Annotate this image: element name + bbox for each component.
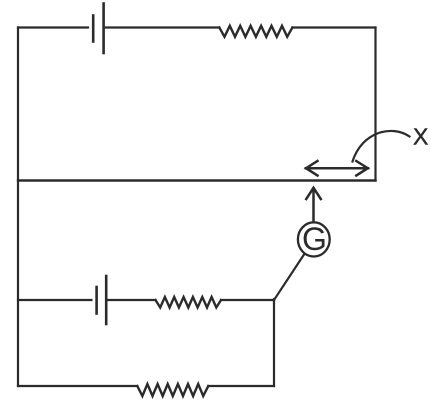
label X xyxy=(413,124,428,150)
resistor R1 xyxy=(219,26,292,37)
wire resistor R1 to top-right corner xyxy=(292,26,375,28)
wire resistor R2 to junction xyxy=(221,299,274,301)
node junction xyxy=(273,299,275,301)
wire potentiometer middle xyxy=(18,179,376,181)
wire middle-loop left segment xyxy=(18,299,91,301)
galvanometer G circle xyxy=(298,222,330,256)
battery B1 long plate xyxy=(102,4,105,54)
svg-text:X: X xyxy=(413,124,428,150)
resistor R2 xyxy=(156,297,222,308)
wire junction down vertical xyxy=(273,300,275,386)
svg-text:G: G xyxy=(302,221,327,257)
jockey double arrow xyxy=(306,161,368,176)
battery B2 long plate xyxy=(105,276,108,324)
wire right vertical xyxy=(374,28,376,181)
wire bottom-left segment xyxy=(18,385,137,387)
battery B2 short plate xyxy=(95,287,98,314)
label X leader curve xyxy=(353,131,410,162)
wire battery B2 to resistor R2 xyxy=(108,299,155,301)
resistor R3 xyxy=(137,384,208,396)
battery B1 short plate xyxy=(92,16,95,42)
wire battery B1 to resistor R1 xyxy=(106,26,220,28)
galvanometer G letter xyxy=(302,221,327,257)
wire top-left segment xyxy=(18,26,88,28)
wire resistor R3 to bottom-right corner xyxy=(208,385,274,387)
wire left vertical bus xyxy=(17,28,19,387)
contact up arrow xyxy=(306,188,321,222)
wire galvanometer to junction diagonal xyxy=(274,255,304,301)
